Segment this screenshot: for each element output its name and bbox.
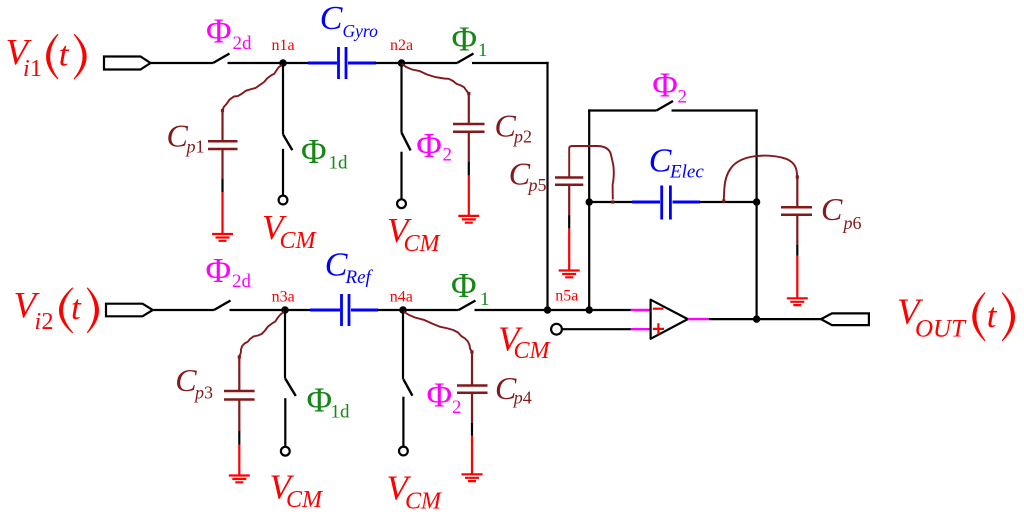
svg-text:3: 3 (204, 382, 213, 402)
svg-text:1d: 1d (329, 153, 349, 174)
node n3a (281, 306, 289, 314)
node n2a (398, 59, 406, 67)
svg-text:2: 2 (452, 397, 462, 418)
svg-text:t: t (71, 288, 82, 327)
capacitor Cp4 top lead (471, 352, 473, 386)
junction square Cp1 (221, 109, 224, 112)
switch PHI1d bottom wire (282, 149, 284, 196)
wire n3a down to switch PHI1d bottom (284, 310, 286, 379)
wire vertical top row down to bottom row (546, 62, 548, 310)
switch PHI1d bottom wire (284, 398, 286, 446)
svg-text:Ref: Ref (345, 267, 374, 288)
svg-text:Φ: Φ (652, 66, 678, 105)
svg-text:1d: 1d (331, 402, 351, 423)
svg-text:CM: CM (514, 338, 552, 364)
wire switch to n3a and CRef left lead (230, 309, 312, 311)
svg-text:4: 4 (523, 387, 532, 407)
svg-text:2: 2 (523, 127, 532, 147)
capacitor Cp6 top lead (796, 177, 798, 207)
svg-text:2: 2 (678, 87, 688, 108)
svg-text:CM: CM (286, 487, 324, 513)
capacitor Cp5 bottom lead red (568, 228, 570, 270)
svg-text:2: 2 (42, 309, 54, 335)
svg-text:p: p (842, 213, 853, 233)
svg-text:Elec: Elec (669, 162, 704, 183)
capacitor CGyro plates (339, 47, 347, 79)
svg-text:6: 6 (853, 213, 862, 233)
junction square Cp4 (470, 350, 473, 353)
svg-text:Φ: Φ (307, 381, 333, 420)
capacitor Cp6 bottom lead black (796, 245, 798, 256)
junction square Cp6 top (796, 175, 799, 178)
parasitic wire Cp6 (724, 156, 798, 200)
junction square Cp2 (467, 92, 470, 95)
switch PHI1 bottom lever (459, 301, 476, 311)
switch PHI2d top lever (213, 54, 230, 64)
svg-text:1: 1 (480, 289, 490, 310)
capacitor CElec blue leads (632, 201, 660, 204)
svg-text:C: C (320, 0, 343, 37)
switch PHI2 loop lever (657, 101, 674, 111)
output port VOUT (821, 313, 869, 325)
parasitic wire n3a to Cp3 (240, 312, 285, 357)
junction square Cp3 (238, 355, 241, 358)
capacitor CGyro blue leads (308, 62, 337, 65)
svg-text:Φ: Φ (451, 266, 477, 305)
svg-text:Φ: Φ (206, 12, 232, 51)
capacitor Cp4 bottom lead maroon (471, 393, 473, 423)
input port Vi1 (104, 57, 151, 70)
svg-text:1: 1 (478, 40, 488, 61)
capacitor Cp2 bottom lead red (468, 175, 470, 216)
svg-text:5: 5 (538, 175, 547, 195)
op-amp plus mark (653, 323, 664, 334)
switch PHI1d bottom lever (285, 379, 296, 397)
svg-text:CM: CM (405, 489, 443, 515)
node bottom wire at x589 (586, 306, 593, 313)
wire feedback top left segment (588, 109, 656, 111)
wire feedback left vertical n5a (588, 109, 590, 310)
node n1a (279, 59, 287, 67)
wire port to switch (151, 62, 214, 64)
svg-text:n1a: n1a (272, 37, 295, 54)
svg-text:CM: CM (280, 228, 318, 254)
wire n4a down to switch PHI2 bottom (402, 310, 404, 379)
wire CElec to right vertical (699, 201, 757, 203)
switch PHI2 bottom lever (403, 379, 412, 395)
terminal circle VCM 3 (281, 447, 290, 456)
capacitor Cp6 bottom lead red (796, 256, 798, 298)
svg-text:n4a: n4a (390, 289, 413, 306)
capacitor CRef blue leads (310, 309, 340, 312)
parasitic wire n1a to Cp1 (222, 65, 282, 111)
svg-text:CM: CM (404, 231, 442, 257)
wire PHI1 to opamp minus (475, 309, 631, 311)
capacitor CElec plates (662, 186, 671, 220)
wire port to switch (153, 309, 214, 311)
label Vi1(t) (6, 33, 87, 83)
capacitor Cp3 top lead (238, 357, 240, 391)
wire feedback right vertical (755, 109, 757, 319)
capacitor Cp6 bottom lead maroon (796, 215, 798, 245)
op-amp minus mark (653, 308, 664, 310)
wire n1a down to switch PHI1d (282, 63, 284, 134)
label Vi2(t) (14, 286, 99, 336)
wire feedback top right segment (672, 109, 758, 111)
capacitor Cp5 bottom lead maroon (568, 185, 570, 215)
svg-text:C: C (649, 142, 672, 179)
ground Cp2 (458, 216, 479, 223)
wire PHI1 to corner (472, 62, 549, 64)
switch PHI2d bottom lever (214, 301, 231, 311)
capacitor Cp3 bottom lead maroon (238, 400, 240, 432)
capacitor Cp4 bottom lead red (471, 436, 473, 475)
op-amp U1 triangle (651, 300, 688, 339)
wire n2a down to switch PHI2 (400, 63, 402, 133)
ground Cp1 (212, 234, 233, 241)
wire opamp output magenta segment (688, 318, 709, 320)
junction square Cp5 wire (611, 200, 614, 203)
capacitor Cp2 plates (453, 124, 485, 132)
switch PHI2 bottom wire (402, 397, 404, 447)
svg-text:Φ: Φ (206, 251, 232, 290)
input port Vi2 (106, 304, 153, 317)
ground Cp4 (462, 474, 483, 481)
capacitor Cp1 plates (208, 141, 238, 149)
svg-text:2: 2 (443, 145, 453, 166)
ground Cp6 (787, 298, 808, 305)
svg-text:Gyro: Gyro (343, 21, 379, 41)
capacitor Cp4 bottom lead black (471, 423, 473, 436)
capacitor Cp3 plates (224, 391, 255, 400)
capacitor Cp4 plates (457, 386, 488, 393)
parasitic wire n2a to Cp2 (402, 64, 469, 94)
capacitor Cp5 bottom lead black (568, 215, 570, 228)
capacitor Cp3 bottom lead red (238, 445, 240, 476)
svg-text:Φ: Φ (452, 19, 478, 58)
svg-text:p: p (512, 387, 523, 407)
svg-text:n5a: n5a (555, 287, 578, 304)
svg-text:t: t (987, 296, 998, 335)
node n4a (399, 306, 407, 314)
terminal circle VCM 1 (279, 196, 288, 205)
switch PHI1d lever (283, 134, 292, 150)
wire output to port (709, 318, 821, 320)
ground Cp5 (559, 271, 580, 278)
capacitor Cp2 top lead (468, 93, 470, 124)
capacitor Cp2 bottom lead black (468, 162, 470, 175)
node n5a (586, 198, 593, 205)
switch PHI2 lever (402, 133, 411, 151)
terminal circle VCM 5 (551, 324, 562, 335)
wire opamp minus magenta segment (631, 309, 652, 311)
capacitor Cp3 bottom lead black (238, 431, 240, 445)
svg-text:2d: 2d (232, 271, 252, 292)
switch PHI2 bottom wire (400, 152, 402, 200)
svg-text:OUT: OUT (915, 315, 967, 342)
ground Cp3 (229, 476, 250, 483)
switch PHI1 top lever (457, 54, 474, 64)
capacitor Cp5 plates (555, 178, 583, 185)
wire opamp plus magenta segment (631, 328, 652, 330)
svg-text:1: 1 (30, 56, 42, 82)
terminal circle VCM 2 (397, 199, 406, 208)
wire switch to n1a and CGyro left lead (228, 62, 310, 64)
svg-text:C: C (167, 118, 189, 154)
svg-text:i: i (23, 56, 30, 82)
capacitor Cp6 plates (781, 207, 812, 215)
node CElec right (753, 198, 760, 205)
svg-text:p: p (527, 175, 538, 195)
svg-text:Φ: Φ (416, 126, 442, 165)
svg-text:Φ: Φ (301, 132, 327, 171)
svg-text:t: t (59, 35, 70, 74)
svg-text:p: p (193, 382, 204, 402)
svg-text:p: p (512, 127, 523, 147)
wire CRef to n4a to switch PHI1 (377, 309, 459, 311)
svg-text:n3a: n3a (272, 289, 295, 306)
svg-text:2d: 2d (233, 33, 253, 54)
capacitor Cp1 bottom lead red (221, 192, 223, 234)
svg-text:C: C (325, 246, 348, 283)
svg-text:C: C (175, 362, 197, 398)
node bottom wire at x547 (544, 306, 551, 313)
parasitic wire n4a to Cp4 (404, 312, 472, 352)
svg-text:C: C (821, 191, 843, 227)
wire CGyro to n2a to switch PHI1 (375, 62, 457, 64)
svg-text:n2a: n2a (390, 37, 413, 54)
node output (753, 315, 760, 322)
svg-text:1: 1 (196, 137, 205, 157)
junction square Cp6 wire (722, 199, 725, 202)
capacitor Cp1 bottom lead maroon (221, 149, 223, 179)
capacitor Cp2 bottom lead maroon (468, 132, 470, 162)
wire n5a to CElec (589, 201, 633, 203)
capacitor CRef plates (342, 294, 350, 326)
capacitor Cp1 top lead (221, 111, 223, 142)
label VOUT(t) (897, 292, 1015, 343)
terminal circle VCM 4 (399, 447, 408, 456)
capacitor Cp1 bottom lead black (221, 179, 223, 192)
svg-text:i: i (35, 309, 42, 335)
parasitic wire Cp5 (569, 146, 614, 200)
svg-text:Φ: Φ (427, 376, 453, 415)
svg-text:p: p (185, 137, 196, 157)
svg-text:C: C (509, 156, 531, 192)
wire VCM to opamp plus (562, 328, 631, 330)
